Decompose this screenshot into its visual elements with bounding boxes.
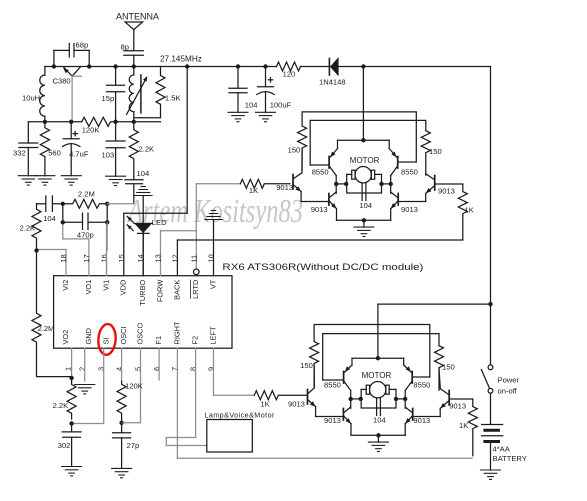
- svg-text:150: 150: [300, 361, 313, 370]
- ground: [228, 112, 248, 121]
- node dot: [362, 218, 366, 222]
- svg-text:RX6 ATS306R(Without DC/DC modu: RX6 ATS306R(Without DC/DC module): [222, 262, 423, 273]
- resistor 1K (bottom right): [449, 399, 477, 456]
- resistor 150 left: [298, 126, 307, 170]
- Power on-off label: [498, 376, 520, 396]
- svg-text:F1: F1: [154, 336, 163, 345]
- node dot pin1 bias: [69, 376, 73, 380]
- svg-text:MOTOR: MOTOR: [350, 156, 380, 165]
- capacitor 104 (across motor bottom): [377, 398, 381, 415]
- bridge bottom rail (bottom): [351, 434, 405, 436]
- ground: [62, 467, 82, 476]
- svg-text:6: 6: [152, 367, 161, 371]
- svg-text:C380: C380: [53, 77, 71, 86]
- svg-text:104: 104: [137, 169, 150, 178]
- svg-text:MOTOR: MOTOR: [362, 371, 392, 380]
- transistor 8550 left (bottom): [323, 358, 352, 408]
- transistor 8550 left: [310, 140, 337, 193]
- svg-text:9013: 9013: [449, 402, 466, 411]
- IC bottom pin wires: [72, 348, 472, 458]
- transistor 9013 lower-right (bottom): [405, 407, 413, 435]
- svg-text:1N4148: 1N4148: [319, 78, 346, 87]
- node dot: [132, 120, 136, 124]
- svg-text:SI: SI: [101, 338, 110, 345]
- svg-text:10uH: 10uH: [22, 94, 40, 103]
- outer cross wire (bottom): [314, 325, 430, 378]
- svg-text:8: 8: [189, 367, 198, 371]
- svg-text:on-off: on-off: [498, 387, 518, 396]
- LED: [127, 216, 152, 275]
- node dot: [185, 64, 189, 68]
- transistor 9013 driver-left: [293, 149, 329, 201]
- svg-text:OSCI: OSCI: [119, 326, 128, 344]
- motor terminal rails: [336, 183, 347, 185]
- ground: [35, 176, 55, 185]
- svg-text:104: 104: [373, 416, 386, 425]
- svg-text:LEFT: LEFT: [208, 326, 217, 345]
- svg-text:11: 11: [189, 255, 198, 263]
- pin 14 wire (from LED): [142, 233, 144, 276]
- svg-text:27.145MHz: 27.145MHz: [160, 55, 202, 64]
- pin 2 wire: [84, 348, 86, 381]
- transistor C380: [63, 67, 81, 122]
- switch Power on-off: [481, 365, 493, 393]
- svg-text:1.5K: 1.5K: [165, 94, 181, 103]
- svg-text:150: 150: [429, 147, 442, 156]
- svg-text:4: 4: [115, 367, 124, 371]
- transistor 9013 lower-right: [391, 192, 399, 220]
- capacitor 8p: [124, 51, 144, 67]
- transistor 8550 right (bottom): [404, 358, 430, 408]
- node dot: [376, 433, 380, 437]
- node dot: [403, 397, 407, 401]
- 4*AA BATTERY label: [493, 445, 527, 463]
- red circle around SI pin: [97, 323, 116, 355]
- svg-text:2: 2: [78, 367, 87, 371]
- IC top pin wires: [36, 222, 106, 275]
- node dot: [376, 356, 380, 360]
- pin 1 wire: [71, 348, 73, 378]
- svg-text:150: 150: [442, 363, 455, 372]
- top rail wire: [54, 66, 277, 68]
- motor (bottom): [361, 382, 396, 409]
- svg-text:120K: 120K: [125, 382, 143, 391]
- wire 470p node to pin16: [106, 222, 108, 250]
- capacitor 27p: [113, 423, 131, 469]
- antenna: [125, 22, 143, 50]
- resistor 150 right (bottom): [435, 346, 444, 391]
- node dot: [132, 64, 136, 68]
- inverted ground above LED: [134, 187, 152, 223]
- rail right of 120K: [115, 121, 161, 123]
- ground: [106, 176, 126, 185]
- svg-text:8550: 8550: [324, 381, 341, 390]
- svg-text:4*AA: 4*AA: [493, 445, 511, 454]
- svg-text:VI2: VI2: [61, 280, 70, 291]
- ground: [61, 176, 81, 185]
- svg-text:1K: 1K: [249, 186, 258, 195]
- svg-text:8550: 8550: [401, 168, 418, 177]
- transistor 9013 driver-right (bottom): [413, 368, 450, 416]
- svg-text:2.2M: 2.2M: [38, 324, 55, 333]
- svg-text:VDD: VDD: [119, 280, 128, 296]
- wire: [122, 422, 125, 424]
- resistor 560: [40, 122, 49, 176]
- right rail down to switch: [490, 67, 492, 365]
- resistor 2.2K (bottom left): [67, 378, 76, 419]
- pin labels bottom row (rotated): [61, 321, 218, 344]
- svg-text:ANTENNA: ANTENNA: [116, 12, 159, 22]
- svg-text:2.2K: 2.2K: [139, 145, 155, 154]
- inner cross wire (bottom): [323, 334, 439, 380]
- resistor 1.5K: [134, 67, 165, 118]
- node dot: [52, 64, 56, 68]
- transistor 9013 lower-left: [329, 192, 337, 220]
- svg-text:VI1: VI1: [101, 280, 110, 291]
- capacitor 15p: [107, 67, 125, 122]
- Lamp box: [207, 420, 253, 453]
- ground: [112, 468, 132, 477]
- pin 13+11 wire to 1K: [161, 184, 241, 276]
- capacitor 302: [62, 424, 81, 467]
- node dot: [105, 220, 109, 224]
- ground (bottom bridge): [368, 435, 388, 451]
- node dot: [334, 182, 338, 186]
- svg-text:1K: 1K: [459, 421, 468, 430]
- transistor 9013 driver-left (bottom): [308, 364, 344, 416]
- svg-text:F2: F2: [191, 336, 200, 345]
- node dot: [389, 182, 393, 186]
- outer cross wire: [302, 112, 416, 162]
- svg-text:RIGHT: RIGHT: [172, 321, 181, 344]
- svg-text:LRTD: LRTD: [191, 280, 200, 299]
- svg-text:8550: 8550: [312, 168, 329, 177]
- svg-text:3: 3: [97, 367, 106, 371]
- node dot: [113, 120, 117, 124]
- svg-text:14: 14: [136, 254, 145, 262]
- svg-text:4.7uF: 4.7uF: [69, 150, 89, 159]
- svg-text:16: 16: [100, 254, 109, 262]
- resistor 2.2K (left): [32, 204, 41, 251]
- node dot: [113, 64, 117, 68]
- resistor 150 left (bottom): [310, 342, 319, 387]
- node dot (bridge feed): [361, 64, 365, 68]
- node dot: [61, 202, 65, 206]
- node dot: [379, 182, 383, 186]
- svg-text:FORW: FORW: [155, 280, 164, 302]
- svg-text:5: 5: [134, 367, 143, 371]
- left rail wire: [28, 121, 81, 123]
- svg-text:VO1: VO1: [84, 280, 93, 295]
- svg-text:OSCO: OSCO: [135, 322, 144, 344]
- svg-text:12: 12: [170, 254, 179, 262]
- svg-text:100uF: 100uF: [270, 101, 292, 110]
- svg-text:9013: 9013: [324, 416, 341, 425]
- svg-text:103: 103: [102, 151, 115, 160]
- pin numbers top: [59, 254, 216, 262]
- svg-text:120K: 120K: [82, 126, 100, 135]
- svg-text:15: 15: [117, 254, 126, 262]
- svg-text:8550: 8550: [413, 381, 430, 390]
- node dot: [61, 220, 65, 224]
- node dot: [361, 138, 365, 142]
- svg-text:150: 150: [288, 146, 301, 155]
- capacitor 470p branch: [63, 204, 107, 230]
- capacitor 104 (horizontal, bias): [37, 196, 63, 212]
- ground at pin 2: [75, 385, 95, 394]
- bridge bottom rail: [337, 219, 391, 221]
- node dot: [344, 182, 348, 186]
- svg-text:18: 18: [59, 254, 68, 262]
- transistor 9013 lower-left (bottom): [343, 407, 351, 435]
- svg-text:104: 104: [245, 101, 258, 110]
- wire bias node to 104 mid cap: [107, 203, 134, 205]
- node dot: [34, 248, 38, 252]
- svg-text:2.2K: 2.2K: [53, 401, 69, 410]
- svg-text:120: 120: [283, 70, 296, 79]
- node dot: [119, 421, 123, 425]
- svg-text:332: 332: [13, 149, 26, 158]
- resistor 2.2M (horizontal): [63, 199, 108, 208]
- pin 6 stub: [158, 348, 160, 380]
- pin numbers bottom: [63, 367, 215, 371]
- pin 5 wire: [140, 348, 142, 423]
- node dot: [43, 120, 47, 124]
- pin 10 inverted ground: [205, 211, 223, 276]
- IC RX6 ATS306R box: [54, 276, 232, 349]
- pin labels top row (rotated): [61, 279, 218, 305]
- supply tap wire: [378, 304, 491, 358]
- transistor 8550 right: [389, 140, 416, 193]
- svg-text:302: 302: [58, 441, 71, 450]
- capacitor 104 (mid): [125, 180, 143, 204]
- pin 12 wire to right 1K: [177, 240, 462, 276]
- capacitor 104 (across motor): [362, 183, 366, 200]
- svg-text:Power: Power: [498, 376, 520, 385]
- svg-text:VT: VT: [208, 279, 217, 289]
- capacitor 103: [106, 122, 125, 176]
- capacitor 68p: [54, 44, 89, 67]
- inductor 10uH: [40, 67, 54, 122]
- VDD supply drop wire: [124, 67, 187, 276]
- svg-text:9: 9: [207, 367, 216, 371]
- node dot: [69, 120, 73, 124]
- resistor 150 right: [421, 131, 430, 175]
- watermark Artem Kositsyn83: [127, 193, 303, 230]
- svg-text:9013: 9013: [311, 205, 328, 214]
- pin 18 wire: [65, 250, 67, 276]
- pin 17 wire: [88, 239, 90, 276]
- svg-text:2.2M: 2.2M: [78, 190, 95, 199]
- pin 16 wire: [106, 222, 108, 275]
- svg-text:BATTERY: BATTERY: [493, 454, 527, 463]
- svg-text:9013: 9013: [401, 205, 418, 214]
- pin 7 wire: [176, 348, 178, 458]
- svg-text:1K: 1K: [260, 400, 269, 409]
- svg-text:27p: 27p: [127, 441, 140, 450]
- ground: [256, 112, 276, 121]
- ground (top bridge): [354, 220, 374, 236]
- svg-text:BACK: BACK: [172, 280, 181, 300]
- node dot: [349, 397, 353, 401]
- resistor 120 (series supply): [277, 62, 301, 71]
- svg-text:LED: LED: [152, 218, 167, 227]
- capacitor 100uF: [257, 67, 274, 113]
- resistor 1K (to pin12): [435, 184, 468, 240]
- node dot: [105, 202, 109, 206]
- node dot: [359, 397, 363, 401]
- svg-text:17: 17: [82, 254, 91, 262]
- svg-text:2.2K: 2.2K: [20, 224, 36, 233]
- pin 3 wire: [103, 348, 105, 423]
- node dot: [263, 64, 267, 68]
- bridge top rail: [338, 139, 390, 141]
- capacitor 104 (supply): [229, 67, 247, 113]
- inner cross wire: [310, 120, 426, 165]
- node dot: [69, 421, 73, 425]
- node dot: [488, 302, 492, 306]
- transistor 9013 driver-right: [398, 174, 435, 202]
- resistor 2.2M (vertical): [32, 251, 72, 377]
- node dot: [87, 64, 91, 68]
- svg-text:68p: 68p: [76, 41, 89, 50]
- svg-text:104: 104: [359, 201, 372, 210]
- pin 4 wire: [121, 348, 123, 381]
- svg-text:560: 560: [48, 149, 61, 158]
- bridge feed wire: [362, 67, 364, 141]
- svg-text:9013: 9013: [413, 416, 430, 425]
- svg-text:9013: 9013: [288, 400, 305, 409]
- svg-text:104: 104: [43, 214, 56, 223]
- svg-text:TURBO: TURBO: [138, 279, 147, 305]
- variable inductor (tank coil): [127, 67, 148, 122]
- svg-text:1K: 1K: [465, 206, 474, 215]
- motor (top): [347, 167, 382, 194]
- pin 9 wire: [213, 348, 215, 395]
- ground: [18, 176, 38, 185]
- bridge top rail (bottom): [352, 357, 404, 359]
- svg-text:8p: 8p: [121, 43, 129, 52]
- pin 11 circle: [194, 269, 200, 275]
- ground (battery): [481, 470, 501, 479]
- resistor 1K (to pin9): [254, 391, 307, 400]
- svg-text:9013: 9013: [438, 187, 455, 196]
- svg-text:13: 13: [154, 254, 163, 262]
- svg-text:VO2: VO2: [61, 330, 70, 345]
- motor terminal rails (bottom): [351, 398, 362, 400]
- diode 1N4148: [329, 57, 338, 76]
- pin 8 wire: [195, 348, 197, 437]
- resistor 1K (to pin13): [240, 179, 290, 188]
- node dot: [394, 397, 398, 401]
- svg-text:10: 10: [207, 254, 216, 262]
- resistor 2.2K (mid): [129, 122, 138, 180]
- resistor 120K (osc): [117, 381, 126, 422]
- battery 4*AA: [482, 393, 503, 470]
- svg-text:470p: 470p: [77, 231, 94, 240]
- svg-text:15p: 15p: [102, 94, 115, 103]
- svg-text:Lamp&Voice&Motor: Lamp&Voice&Motor: [204, 411, 275, 420]
- node dot: [236, 64, 240, 68]
- svg-text:GND: GND: [84, 328, 93, 344]
- resistor 120K horizontal: [82, 117, 116, 126]
- capacitor 332: [19, 122, 38, 176]
- capacitor 4.7uF: [63, 122, 80, 176]
